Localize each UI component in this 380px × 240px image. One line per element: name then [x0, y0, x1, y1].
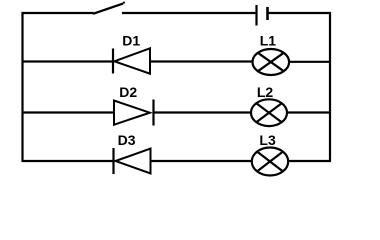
svg-text:D2: D2	[119, 84, 137, 100]
label D2	[119, 84, 137, 100]
diode D1 (cathode left)	[113, 48, 150, 73]
label D1	[122, 33, 140, 49]
wire row2 middle	[154, 111, 253, 113]
wire row2 right	[287, 111, 331, 113]
label L2	[257, 84, 274, 100]
diode D3 (cathode left)	[114, 148, 151, 174]
svg-text:L2: L2	[257, 84, 274, 100]
svg-text:L1: L1	[260, 33, 277, 49]
lamp L3	[252, 148, 288, 176]
label L1	[260, 33, 277, 49]
wire top middle segment	[122, 12, 255, 14]
wire row3 middle	[151, 160, 253, 162]
wire row1 right	[289, 61, 331, 63]
svg-text:L3: L3	[259, 132, 276, 148]
svg-text:D3: D3	[118, 132, 136, 148]
wire row3 right	[288, 160, 331, 162]
wire row3 left	[22, 160, 113, 162]
switch S (open)	[93, 1, 125, 13]
lamp L1	[252, 49, 289, 75]
battery cell	[257, 5, 268, 26]
wire row1 left	[22, 60, 113, 62]
wire top left segment	[22, 12, 94, 14]
label L3	[259, 132, 276, 148]
lamp L2	[251, 99, 287, 126]
label D3	[118, 132, 136, 148]
wire left vertical bus	[21, 12, 23, 161]
wire row1 middle	[150, 60, 253, 62]
svg-text:D1: D1	[122, 33, 140, 49]
wire right vertical bus	[329, 12, 331, 161]
wire row2 left	[22, 111, 115, 113]
diode D2 (cathode right)	[114, 100, 154, 126]
wire top right segment	[269, 12, 332, 14]
